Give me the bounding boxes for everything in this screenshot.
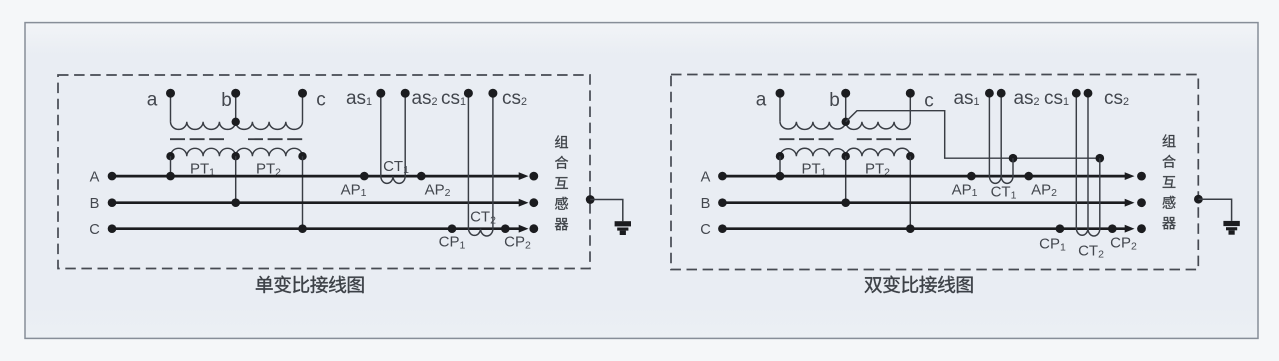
svg-text:A: A [701, 169, 711, 185]
svg-text:B: B [701, 196, 711, 212]
svg-text:b: b [829, 90, 840, 111]
svg-text:a: a [756, 90, 767, 111]
svg-text:a: a [147, 90, 158, 111]
svg-text:B: B [90, 196, 100, 212]
svg-text:C: C [89, 222, 100, 238]
svg-text:b: b [221, 90, 232, 111]
svg-text:c: c [316, 90, 326, 111]
svg-text:C: C [700, 222, 711, 238]
svg-text:c: c [924, 90, 934, 111]
svg-text:A: A [90, 169, 100, 185]
